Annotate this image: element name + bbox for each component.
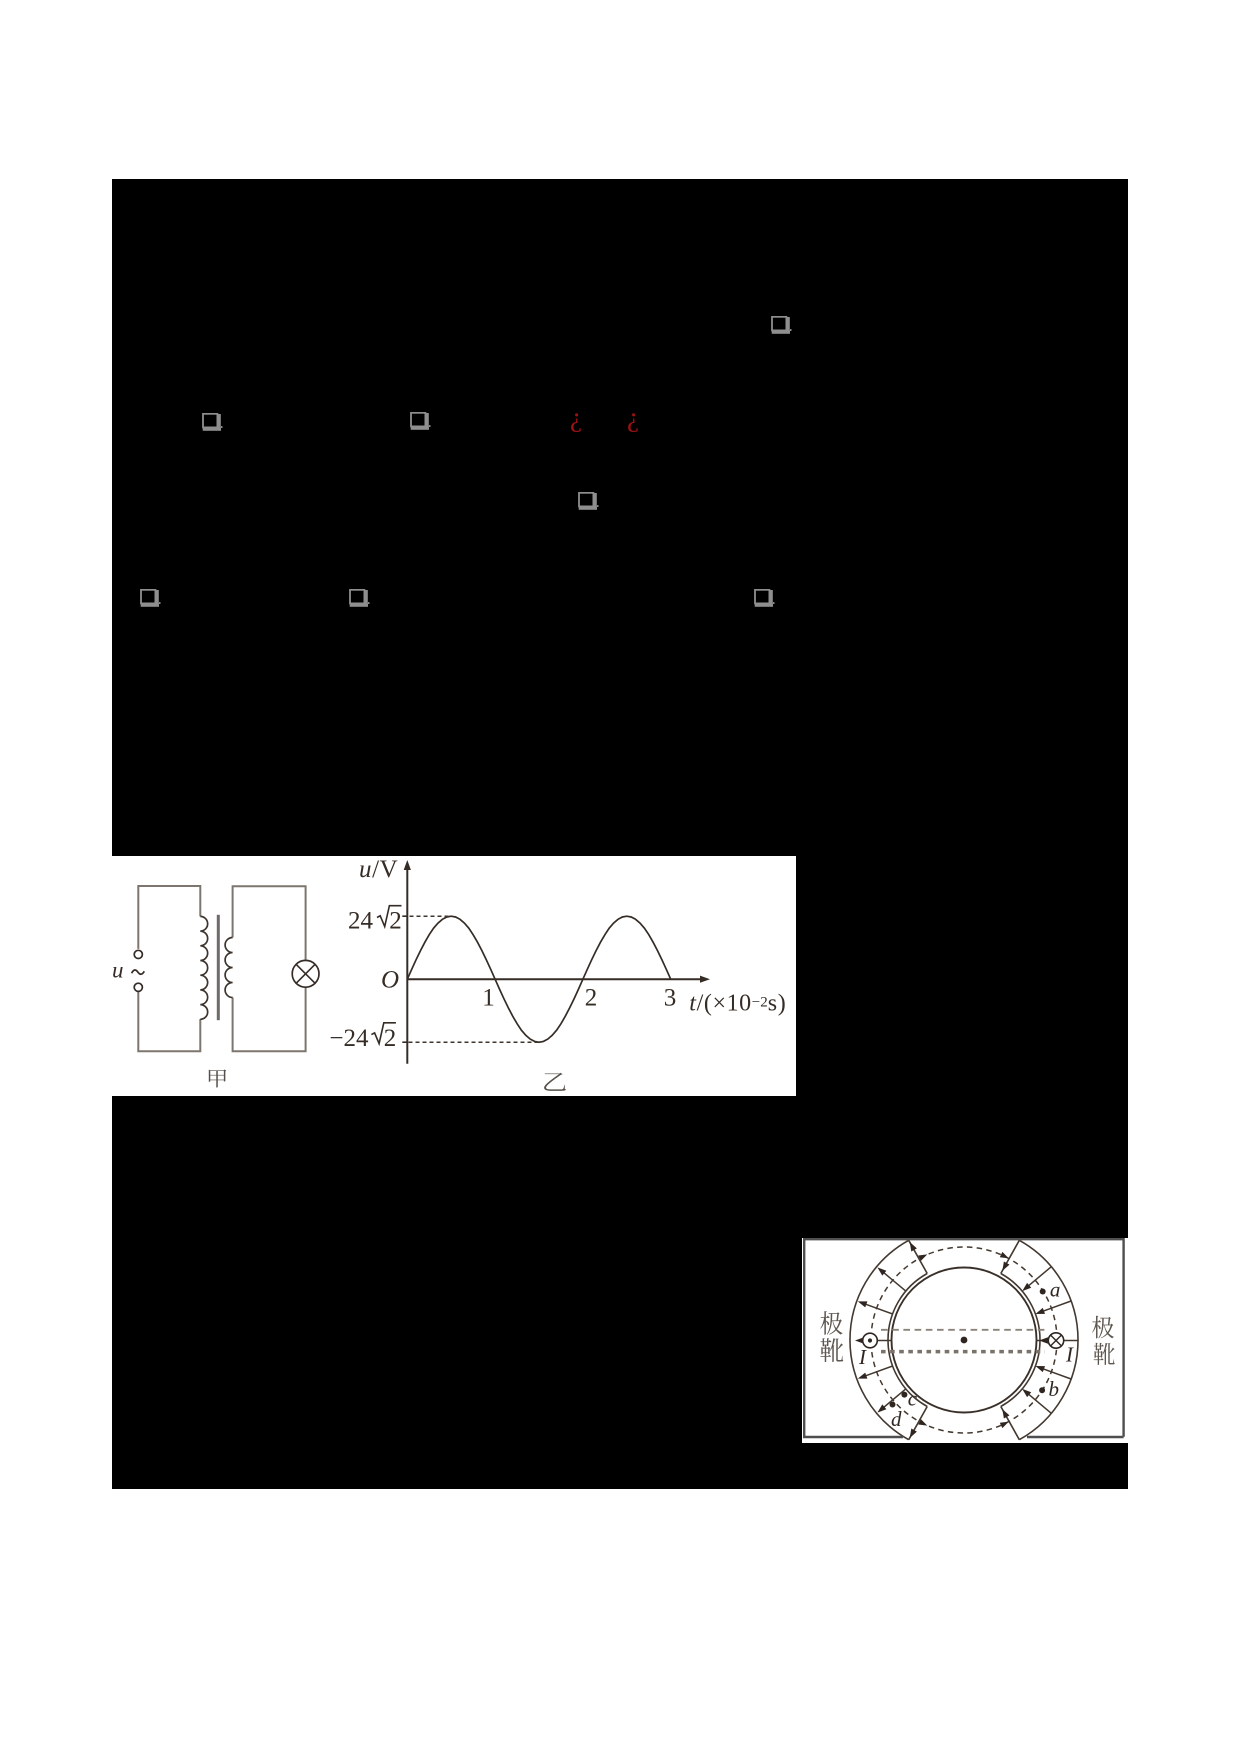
dashed line to -trough	[409, 1041, 540, 1043]
sine waveform	[407, 916, 670, 1042]
red glyph 1	[570, 402, 582, 433]
red glyph 2	[627, 402, 639, 433]
conductor current-out symbol (left, I)	[855, 1333, 892, 1348]
ac source tilde	[132, 970, 145, 974]
missing-glyph box 2	[202, 413, 223, 432]
graph y-axis	[406, 866, 408, 1064]
figure 2 : motor pole diagram	[802, 1238, 1128, 1443]
svg-text:−24: −24	[329, 1025, 369, 1052]
graph x-axis	[407, 978, 706, 980]
svg-text:d: d	[891, 1407, 902, 1431]
missing-glyph box 1	[771, 316, 792, 335]
svg-text:1: 1	[482, 985, 495, 1012]
armature rotor circle	[892, 1268, 1037, 1413]
figure border frame	[803, 1239, 1124, 1437]
flux direction arrows on dashed circle	[918, 1254, 927, 1261]
missing-glyph box 6	[349, 589, 370, 608]
label jia	[209, 1070, 227, 1088]
conductor c	[901, 1392, 907, 1398]
svg-text:3: 3	[664, 984, 677, 1011]
conductor b	[1039, 1387, 1045, 1393]
field-direction radial lines	[864, 1267, 1072, 1414]
field arrowheads	[1035, 1308, 1045, 1314]
primary circuit wire loop	[138, 886, 200, 1051]
transformer core	[217, 915, 220, 1020]
missing-glyph box 3	[410, 412, 431, 431]
secondary coil	[225, 938, 233, 998]
svg-text:2: 2	[384, 1025, 397, 1052]
svg-text:a: a	[1050, 1278, 1061, 1302]
source terminal bottom	[134, 983, 142, 991]
lower dotted brush-axis line	[881, 1350, 1045, 1354]
secondary circuit wire loop	[233, 886, 306, 1051]
svg-text:2: 2	[585, 985, 598, 1012]
label yi	[544, 1073, 566, 1091]
figure 1 : transformer and waveform	[112, 856, 796, 1096]
svg-text:24: 24	[348, 908, 374, 935]
missing-glyph box 5	[140, 589, 161, 608]
dashed line to +peak	[410, 915, 452, 917]
source terminal top	[134, 950, 142, 958]
pole shoe label right	[1092, 1316, 1115, 1365]
svg-text:I: I	[858, 1345, 867, 1369]
pole shoe outlines	[850, 1240, 1078, 1439]
missing-glyph box 4	[578, 492, 599, 511]
primary coil	[200, 916, 207, 1019]
svg-text:2: 2	[389, 908, 402, 935]
missing-glyph box 7	[754, 589, 775, 608]
conductor current-in symbol (right, I)	[1037, 1333, 1079, 1348]
svg-text:O: O	[381, 966, 399, 993]
lamp	[292, 960, 319, 987]
svg-text:u/V: u/V	[359, 856, 398, 883]
svg-text:u: u	[112, 958, 124, 983]
svg-text:I: I	[1065, 1343, 1074, 1367]
dashed flux-line circle	[871, 1247, 1057, 1433]
svg-text:t/(×10−2s): t/(×10−2s)	[689, 991, 786, 1017]
svg-text:b: b	[1049, 1377, 1060, 1401]
black redacted block	[112, 179, 1128, 1489]
rotor center dot	[961, 1337, 968, 1344]
upper dashed brush-axis line	[881, 1329, 1048, 1331]
conductor d	[890, 1402, 896, 1408]
pole shoe label left	[820, 1311, 843, 1362]
svg-text:c: c	[908, 1386, 918, 1410]
conductor a	[1040, 1289, 1046, 1295]
